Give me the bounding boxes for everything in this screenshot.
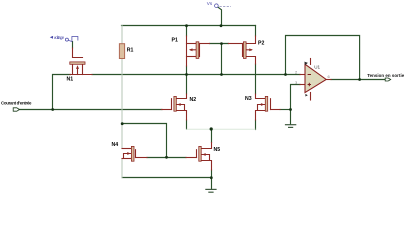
svg-text:voltage: voltage [54,35,65,40]
svg-text:Vs: Vs [207,1,213,6]
svg-text:N2: N2 [190,97,197,103]
svg-text:N1: N1 [67,77,74,83]
svg-text:P1: P1 [172,38,178,44]
svg-text:Courant d'entrée: Courant d'entrée [1,101,32,106]
svg-text:6: 6 [328,74,331,79]
svg-text:2: 2 [295,70,298,75]
svg-text:Tension en sortie: Tension en sortie [367,73,405,78]
svg-text:N5: N5 [214,147,221,153]
svg-text:N3: N3 [245,96,252,102]
svg-text:R1: R1 [127,48,134,54]
svg-text:P2: P2 [258,41,264,47]
svg-text:N4: N4 [112,142,119,148]
svg-text:U1: U1 [314,64,320,69]
